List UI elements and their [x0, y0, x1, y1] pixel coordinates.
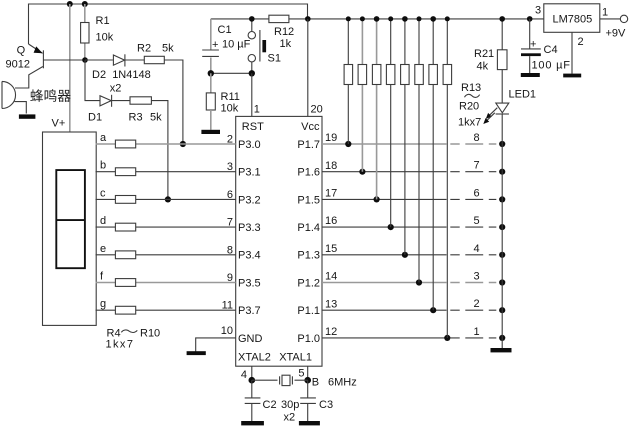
svg-text:15: 15 [325, 243, 337, 255]
node bus pin 3 [499, 279, 505, 285]
ground R11 [201, 130, 220, 134]
svg-text:D2: D2 [92, 69, 106, 81]
wire row e [96, 254, 236, 256]
wire top +5V rail [29, 4, 308, 44]
wire dashed to connector 4 [450, 254, 496, 256]
node S1 bottom [249, 70, 255, 76]
wire dashed to connector 5 [450, 226, 496, 228]
svg-text:C2: C2 [263, 399, 277, 411]
node row 17 to resistor [374, 196, 380, 202]
svg-text:3: 3 [535, 5, 541, 17]
svg-text:17: 17 [325, 188, 337, 200]
svg-text:R1: R1 [96, 15, 110, 27]
wire row P1.0 [322, 337, 447, 339]
buzzer [2, 81, 26, 113]
node xtal2 [249, 377, 256, 384]
capacitor C2 [245, 380, 277, 421]
node rail R14 [360, 16, 365, 21]
svg-text:P3.2: P3.2 [238, 194, 261, 206]
buzzer label 蜂鸣器 [30, 89, 70, 102]
svg-text:+: + [530, 39, 536, 51]
svg-text:13: 13 [325, 298, 337, 310]
svg-text:XTAL2: XTAL2 [238, 352, 271, 364]
svg-text:2: 2 [473, 298, 479, 310]
svg-text:10k: 10k [221, 103, 239, 115]
node rail R17 [402, 16, 408, 22]
node rail R18 [417, 16, 422, 21]
svg-text:P3.0: P3.0 [238, 139, 261, 151]
svg-text:20: 20 [311, 104, 323, 116]
node row 18 to resistor [359, 169, 365, 175]
wire dashed to connector 8 [450, 143, 496, 145]
resistor R14 [361, 19, 363, 172]
resistor R1 [84, 4, 86, 60]
svg-text:4: 4 [473, 243, 479, 255]
svg-text:P1.1: P1.1 [297, 305, 320, 317]
svg-text:7: 7 [473, 160, 479, 172]
node rail R15 [374, 16, 380, 22]
regulator U2 LM7805 [544, 4, 600, 33]
svg-text:+: + [212, 39, 218, 51]
svg-text:5k: 5k [150, 112, 162, 124]
capacitor C4 100uF [521, 19, 571, 73]
svg-text:1kx7: 1kx7 [106, 339, 135, 351]
wire row P1.6 [322, 171, 447, 173]
wire dashed to connector 1 [450, 337, 496, 339]
display DS1 box [43, 132, 97, 325]
svg-text:V+: V+ [52, 118, 66, 130]
svg-text:3: 3 [227, 161, 233, 173]
node rail R20 [445, 16, 450, 21]
wire RST [251, 73, 253, 116]
wire base node down to D1 [85, 60, 100, 101]
node row 19 to resistor [345, 141, 351, 147]
svg-text:R2: R2 [137, 43, 151, 55]
svg-text:3: 3 [473, 271, 479, 283]
node bus pin 1 [499, 335, 505, 341]
wire row a [96, 143, 236, 145]
wire Vcc [307, 19, 309, 117]
svg-text:6: 6 [227, 189, 233, 201]
svg-text:R3: R3 [129, 112, 143, 124]
node rail R19 [430, 16, 436, 22]
terminal +9V [620, 15, 627, 22]
wire row P1.7 [322, 143, 447, 145]
resistor R12 [269, 15, 289, 22]
wire R3 to row c [151, 101, 168, 200]
svg-text:1kx7: 1kx7 [458, 117, 481, 129]
switch S1 [248, 19, 281, 73]
wire V+ drop [69, 4, 71, 132]
svg-text:2: 2 [578, 36, 584, 48]
resistor R16 [390, 19, 392, 227]
capacitor C3 [300, 380, 333, 421]
node bus pin 7 [499, 169, 505, 175]
svg-text:GND: GND [238, 333, 263, 345]
wire row b [96, 171, 236, 173]
svg-text:R10: R10 [140, 328, 160, 340]
svg-text:a: a [100, 132, 107, 144]
resistor R8 [115, 251, 135, 259]
wire row c [96, 198, 236, 200]
svg-text:6MHz: 6MHz [328, 377, 357, 389]
svg-text:10: 10 [221, 325, 233, 337]
node rail R16 [388, 16, 393, 21]
svg-text:9012: 9012 [6, 59, 30, 71]
wire dashed to connector 3 [450, 282, 496, 284]
svg-text:16: 16 [325, 215, 337, 227]
ground 7805 [563, 74, 581, 78]
resistor R2 [144, 56, 164, 63]
node bus pin 8 [499, 141, 505, 147]
svg-text:1: 1 [254, 104, 260, 116]
svg-text:C1: C1 [218, 24, 232, 36]
resistor R9 [115, 279, 135, 287]
svg-text:B: B [312, 377, 319, 389]
svg-text:+9V: +9V [606, 28, 627, 40]
svg-text:5: 5 [298, 368, 304, 380]
resistor R11 [206, 73, 240, 130]
diode D2 1N4148 [85, 54, 151, 94]
svg-text:LED1: LED1 [509, 89, 537, 101]
svg-text:Vcc: Vcc [301, 121, 320, 133]
svg-text:8: 8 [227, 244, 233, 256]
svg-text:b: b [100, 160, 106, 172]
svg-text:c: c [100, 187, 106, 199]
svg-text:P1.6: P1.6 [297, 167, 320, 179]
svg-text:1k: 1k [280, 38, 292, 50]
svg-text:LM7805: LM7805 [553, 14, 593, 26]
svg-text:19: 19 [325, 132, 337, 144]
ground C2 [241, 421, 264, 425]
svg-text:C4: C4 [544, 44, 558, 56]
node row 16 to resistor [388, 224, 394, 230]
resistor R10 [115, 306, 135, 314]
wire R2 to row a [164, 60, 183, 144]
node rail-R1 [82, 1, 88, 7]
resistor R7 [115, 223, 135, 231]
node row 12 to resistor [444, 335, 450, 341]
resistor R15 [376, 19, 378, 200]
wire 7805 output [600, 18, 621, 20]
resistor R5 [115, 168, 135, 176]
node Vcc corner [305, 16, 311, 22]
svg-text:x2: x2 [110, 82, 122, 94]
node bus pin 6 [499, 196, 505, 202]
svg-text:100 µF: 100 µF [532, 60, 571, 72]
crystal B 6MHz [252, 375, 357, 388]
ground right bus [491, 348, 512, 352]
svg-text:14: 14 [325, 271, 337, 283]
resistor R6 [115, 196, 135, 204]
svg-text:XTAL1: XTAL1 [279, 352, 312, 364]
svg-text:R13: R13 [461, 82, 481, 94]
node row 14 to resistor [416, 279, 422, 285]
node row 15 to resistor [402, 252, 408, 258]
svg-text:C3: C3 [319, 399, 333, 411]
svg-text:P1.7: P1.7 [297, 139, 320, 151]
svg-text:P1.0: P1.0 [297, 333, 320, 345]
wire dashed to connector 6 [450, 198, 496, 200]
svg-text:8: 8 [473, 132, 479, 144]
capacitor C1 10uF [202, 19, 250, 73]
wire row P1.5 [322, 198, 447, 200]
wire row g [96, 309, 236, 311]
resistor R21 [474, 19, 507, 103]
svg-text:2: 2 [227, 134, 233, 146]
svg-text:30p: 30p [281, 399, 299, 411]
wire dashed to connector 2 [450, 309, 496, 311]
svg-text:10k: 10k [96, 32, 114, 44]
node C1 bottom [208, 70, 214, 76]
transistor Q1 9012 [6, 44, 86, 88]
node row c junction [165, 196, 171, 202]
resistor R13 [347, 19, 349, 144]
node xtal1 [304, 377, 311, 384]
wire GND pin to ground [196, 338, 236, 352]
wire 5V rail segment to regulator [211, 18, 544, 20]
node row a junction [180, 141, 186, 147]
svg-text:R21: R21 [474, 48, 494, 60]
node rail-V+ [67, 1, 73, 7]
resistor R18 [418, 19, 420, 283]
ground C3 [299, 421, 320, 425]
svg-text:P3.3: P3.3 [238, 222, 261, 234]
svg-text:7: 7 [227, 217, 233, 229]
wire row P1.2 [322, 282, 447, 284]
resistor R17 [404, 19, 406, 255]
node bus pin 2 [499, 307, 505, 313]
wire XTAL2 pin4 [251, 366, 253, 380]
svg-text:e: e [100, 243, 106, 255]
svg-text:P3.4: P3.4 [238, 250, 261, 262]
svg-text:10 µF: 10 µF [222, 39, 251, 51]
svg-text:5: 5 [473, 215, 479, 227]
resistor R4 [115, 140, 135, 148]
svg-text:P1.4: P1.4 [297, 222, 320, 234]
ground C4 [521, 73, 540, 77]
svg-text:P1.3: P1.3 [297, 250, 320, 262]
svg-text:11: 11 [222, 300, 233, 312]
svg-text:6: 6 [473, 187, 479, 199]
node R21 top [499, 16, 505, 22]
wire row P1.4 [322, 226, 447, 228]
svg-text:12: 12 [325, 326, 337, 338]
svg-text:RST: RST [242, 121, 264, 133]
svg-text:R20: R20 [459, 101, 479, 113]
LED LED1 [483, 89, 536, 125]
svg-text:x2: x2 [284, 412, 296, 424]
svg-text:1: 1 [473, 326, 479, 338]
node S1 top [249, 16, 255, 22]
wire row f [96, 282, 236, 284]
svg-text:P1.5: P1.5 [297, 194, 320, 206]
wire C1/S1 bottom joint [211, 72, 252, 74]
node C4 tap [527, 16, 533, 22]
wire 7805 pin2 [571, 32, 573, 73]
node row 13 to resistor [430, 307, 436, 313]
svg-text:9: 9 [227, 272, 233, 284]
node base junction [82, 57, 88, 63]
svg-text:P3.7: P3.7 [238, 305, 261, 317]
svg-text:1: 1 [602, 7, 608, 19]
node rail R13 [346, 16, 351, 21]
svg-text:S1: S1 [268, 53, 281, 65]
svg-text:P3.5: P3.5 [238, 277, 261, 289]
node bus pin 5 [499, 224, 505, 230]
svg-text:d: d [100, 215, 106, 227]
diode D1 1N4148 [88, 95, 130, 124]
MCU pin names [238, 121, 320, 364]
svg-text:18: 18 [325, 160, 337, 172]
svg-text:P1.2: P1.2 [297, 277, 320, 289]
wire XTAL1 pin5 [307, 366, 309, 380]
resistor R20 [446, 19, 448, 338]
svg-text:5k: 5k [162, 43, 174, 55]
wire row d [96, 226, 236, 228]
svg-text:4k: 4k [477, 61, 489, 73]
display digit segments [56, 170, 85, 268]
resistor R3 [130, 97, 151, 104]
resistor R19 [432, 19, 434, 310]
wire row P1.1 [322, 309, 447, 311]
svg-text:4: 4 [241, 369, 247, 381]
svg-text:1N4148: 1N4148 [112, 69, 151, 81]
MCU U1 box [236, 116, 322, 366]
svg-text:R11: R11 [221, 91, 240, 103]
ground GND pin [187, 351, 206, 355]
svg-text:D1: D1 [88, 112, 102, 124]
ground buzzer [19, 114, 36, 118]
svg-text:Q: Q [17, 45, 26, 57]
wire dashed to connector 7 [450, 171, 496, 173]
wire row P1.3 [322, 254, 447, 256]
svg-text:g: g [100, 298, 106, 310]
svg-text:P3.1: P3.1 [238, 167, 261, 179]
node bus pin 4 [499, 252, 505, 258]
wire right bus [501, 114, 503, 348]
svg-text:R12: R12 [274, 26, 294, 38]
